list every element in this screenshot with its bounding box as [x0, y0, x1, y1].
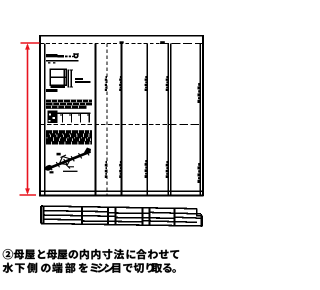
figure 3: caption text rows: [46, 100, 92, 109]
caption line 1: [3, 249, 179, 259]
middle perforation dashed line: [40, 124, 168, 126]
tiny vertical label on fold pair x168 (upper): [166, 76, 168, 91]
vertical line x147: [146, 44, 148, 196]
sheet outline: [39, 35, 204, 197]
tiny vertical label on fold pair x168 (lower): [166, 161, 168, 178]
tiny vertical label on dashed line x107 (lower): [105, 161, 107, 178]
tiny vertical label on right cut line (lower, longer): [198, 163, 200, 183]
tiny vertical label on line x147 (lower): [145, 160, 147, 178]
top perforation dashed line: [40, 43, 160, 45]
dashed vertical line x107: [106, 44, 108, 196]
figure 6: diagonal bar assembly: [44, 148, 91, 174]
inner vertical line x200 (right cut pair): [199, 44, 201, 196]
figure 2: box section detail: [46, 69, 90, 92]
tiny vertical label on dashed line x107 (upper): [105, 76, 107, 91]
red dimension vertical line with arrowheads: [27, 45, 29, 193]
bottom margin line: [40, 190, 203, 192]
caption line 2: [3, 263, 176, 273]
tiny vertical label on line x121.5 (upper): [119, 76, 121, 91]
vertical line x95.5: [95, 44, 97, 196]
red dimension extension tick bottom: [20, 194, 37, 196]
tiny label on top dashed line right: [160, 41, 165, 43]
figure 5: dense caption text block: [46, 130, 92, 144]
tiny vertical label on right cut line (upper, longer): [198, 83, 200, 103]
vertical fold pair x168/170.5: [167, 44, 169, 196]
figure 1: title bar with fastener icon: [46, 53, 79, 63]
vertical line x121.5: [121, 44, 123, 196]
cut-off strip piece: [41, 206, 203, 226]
figure 4: clip profile with hanging hooks: [48, 111, 91, 124]
left margin vertical line: [44, 44, 46, 196]
tiny label on top dashed line: [120, 41, 124, 43]
red dimension extension tick top: [21, 42, 40, 44]
tiny vertical label on line x147 (upper): [145, 76, 147, 91]
tiny vertical label on line x121.5 (lower): [119, 161, 121, 178]
